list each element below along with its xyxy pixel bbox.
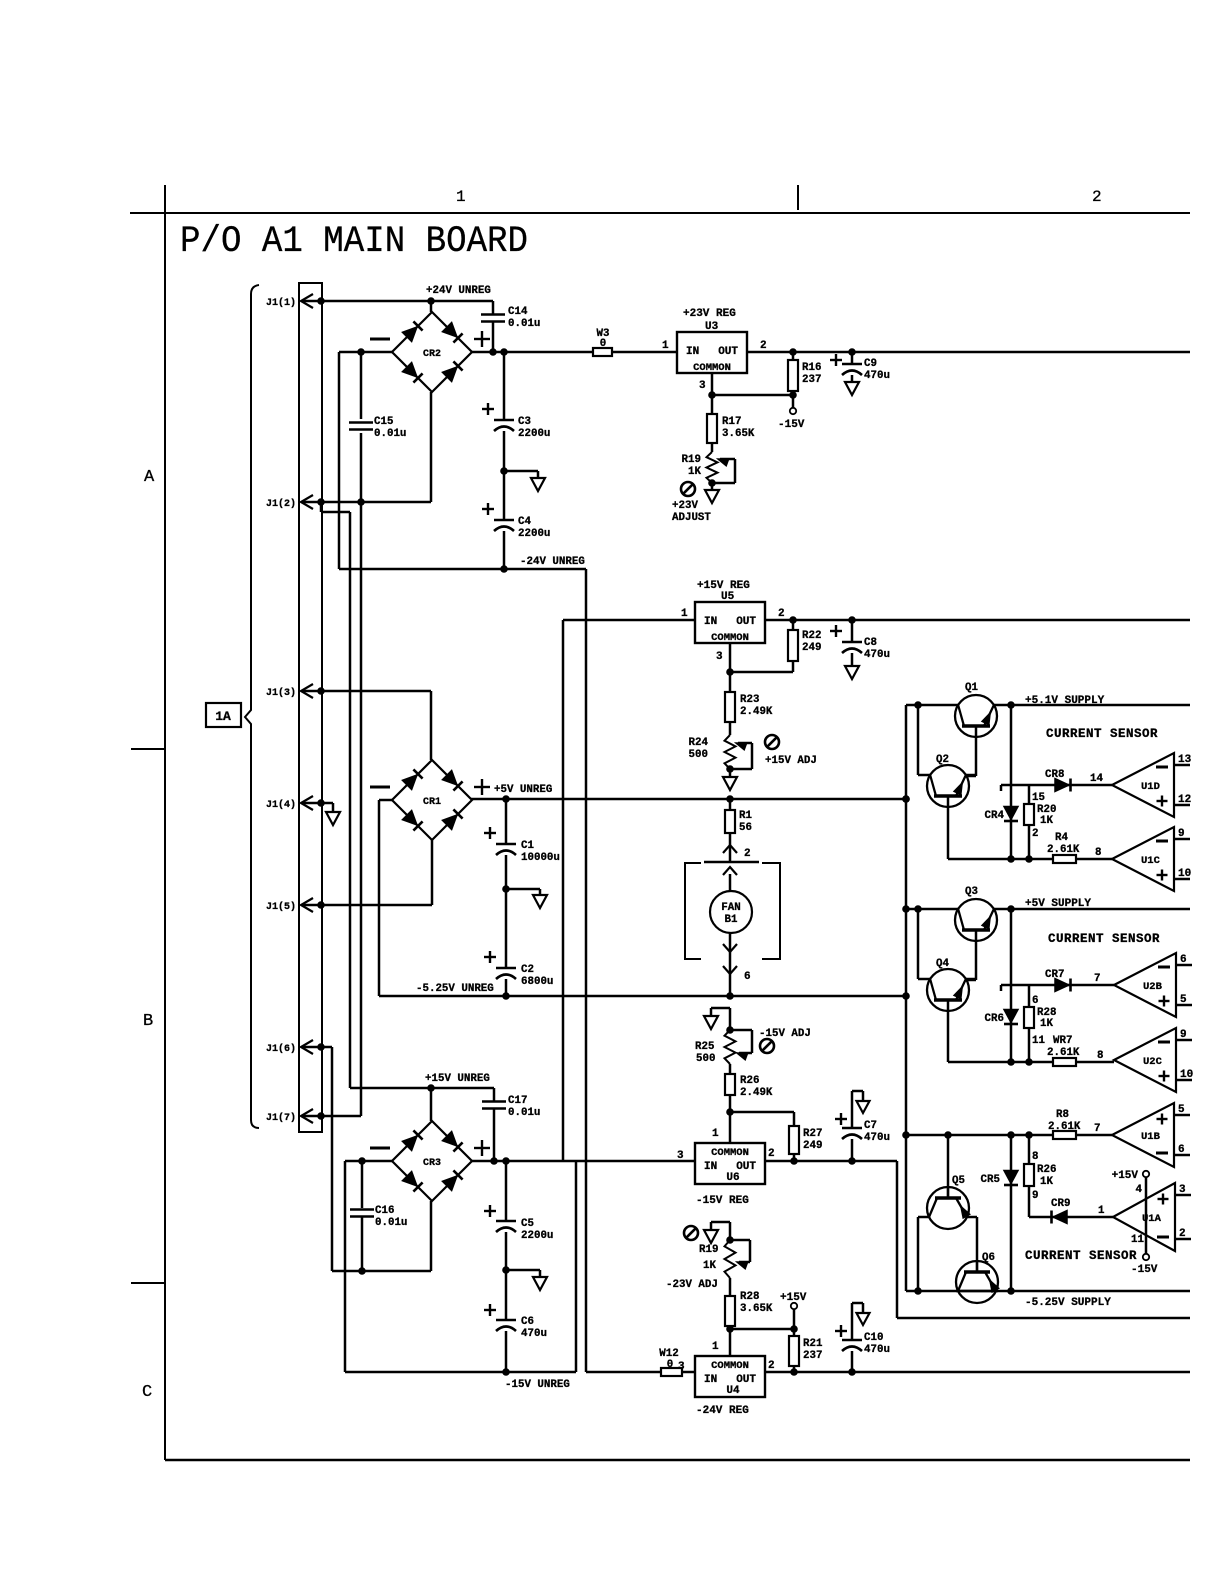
resistor R17 3.65K xyxy=(707,414,717,443)
svg-text:+15V ADJ: +15V ADJ xyxy=(765,755,817,767)
svg-text:C17: C17 xyxy=(508,1095,527,1107)
wire U6 out -15V xyxy=(765,1160,897,1163)
svg-text:2: 2 xyxy=(1092,188,1102,206)
svg-text:CR2: CR2 xyxy=(423,349,441,360)
svg-text:R19: R19 xyxy=(699,1244,718,1256)
capacitor C6 xyxy=(505,1270,508,1319)
svg-text:0: 0 xyxy=(667,1359,673,1371)
svg-text:2.61K: 2.61K xyxy=(1047,1047,1080,1059)
svg-text:C4: C4 xyxy=(518,516,531,528)
svg-text:9: 9 xyxy=(1178,828,1185,840)
wire J1(2) jog down to +15V unreg xyxy=(320,502,323,512)
wire CR3 bottom row to J1(6) xyxy=(332,1270,431,1273)
svg-text:C7: C7 xyxy=(864,1120,877,1132)
wire -5.25V SUPPLY rail xyxy=(906,1290,1190,1293)
svg-text:COMMON: COMMON xyxy=(711,632,749,644)
svg-text:R19: R19 xyxy=(682,454,701,466)
wire J1(3) to CR1 top xyxy=(301,690,431,693)
diode CR5 xyxy=(1010,1135,1013,1291)
svg-text:R17: R17 xyxy=(722,416,741,428)
svg-text:2: 2 xyxy=(768,1148,775,1160)
regulator U6 xyxy=(695,1143,765,1184)
svg-text:R26: R26 xyxy=(740,1075,759,1087)
svg-text:R24: R24 xyxy=(689,737,709,749)
inverted ground at C10 xyxy=(852,1302,863,1305)
diode CR7 xyxy=(1000,985,1003,991)
svg-text:0.01u: 0.01u xyxy=(508,318,540,330)
svg-text:3.65K: 3.65K xyxy=(722,428,755,440)
diode CR4 xyxy=(1010,705,1013,859)
svg-text:C10: C10 xyxy=(864,1332,883,1344)
svg-text:1K: 1K xyxy=(703,1260,716,1272)
resistor R26 2.49K xyxy=(729,1064,732,1074)
svg-text:COMMON: COMMON xyxy=(711,1147,749,1159)
svg-text:+15V: +15V xyxy=(780,1292,807,1304)
ground below R24 xyxy=(729,769,732,777)
capacitor C3 xyxy=(503,352,506,419)
svg-text:1: 1 xyxy=(1098,1205,1105,1217)
svg-text:6: 6 xyxy=(1032,995,1038,1007)
ground at C8 xyxy=(845,666,859,679)
ground at C9 xyxy=(845,382,859,395)
svg-text:8: 8 xyxy=(1097,1050,1103,1062)
svg-text:U5: U5 xyxy=(721,591,735,603)
resistor R4 2.61K xyxy=(1053,855,1076,863)
svg-text:8: 8 xyxy=(1032,1151,1038,1163)
wire CR2 minus to -24V riser xyxy=(339,351,392,354)
svg-text:CR1: CR1 xyxy=(423,797,441,808)
wire -24V riser to U4 xyxy=(585,569,588,1372)
op-amp U2B xyxy=(1114,953,1176,1017)
svg-text:470u: 470u xyxy=(864,1132,890,1144)
svg-text:Q1: Q1 xyxy=(965,682,978,694)
svg-text:R1: R1 xyxy=(739,810,752,822)
svg-text:2200u: 2200u xyxy=(521,1230,553,1242)
adjust -23V ADJ xyxy=(684,1226,698,1240)
capacitor C1 xyxy=(505,799,508,843)
node U5 common xyxy=(729,643,732,692)
svg-text:Q5: Q5 xyxy=(952,1175,965,1187)
svg-text:J1(4): J1(4) xyxy=(266,799,296,811)
wire -24V UNREG xyxy=(500,565,508,573)
svg-text:C3: C3 xyxy=(518,416,531,428)
wire J1(7) xyxy=(301,1115,361,1118)
svg-text:2: 2 xyxy=(768,1360,775,1372)
svg-text:CURRENT SENSOR: CURRENT SENSOR xyxy=(1046,727,1158,741)
svg-text:J1(3): J1(3) xyxy=(266,687,296,699)
svg-text:CR7: CR7 xyxy=(1045,969,1064,981)
op-amp U1B xyxy=(1112,1103,1174,1167)
svg-text:10000u: 10000u xyxy=(521,852,560,864)
diode CR9 xyxy=(1029,1216,1113,1219)
inverted ground at C7 xyxy=(852,1090,863,1093)
node to R21 xyxy=(730,1328,794,1331)
svg-text:-15V: -15V xyxy=(1131,1264,1158,1276)
svg-text:3: 3 xyxy=(699,380,706,392)
wire J1(4) ground xyxy=(301,802,333,805)
capacitor C7 xyxy=(851,1139,854,1161)
svg-text:11: 11 xyxy=(1032,1035,1045,1047)
svg-text:CR8: CR8 xyxy=(1045,769,1064,781)
svg-text:COMMON: COMMON xyxy=(693,362,731,374)
svg-text:5: 5 xyxy=(1180,994,1187,1006)
ground below R19 xyxy=(711,483,714,490)
terminal +15V xyxy=(791,1303,797,1309)
svg-text:B: B xyxy=(143,1012,153,1031)
svg-text:-15V UNREG: -15V UNREG xyxy=(505,1379,570,1391)
adjust +23V ADJUST xyxy=(681,482,695,496)
svg-text:J1(5): J1(5) xyxy=(266,901,296,913)
svg-text:OUT: OUT xyxy=(718,346,738,358)
fan connector brackets xyxy=(685,863,701,959)
svg-text:6: 6 xyxy=(1180,954,1187,966)
svg-text:2200u: 2200u xyxy=(518,428,550,440)
svg-text:2: 2 xyxy=(1179,1228,1186,1240)
capacitor C17 xyxy=(493,1088,496,1101)
capacitor C8 xyxy=(851,620,854,641)
svg-text:-24V REG: -24V REG xyxy=(696,1405,749,1417)
svg-text:R8: R8 xyxy=(1056,1109,1069,1121)
op-amp U2C xyxy=(1114,1028,1176,1092)
svg-text:+5V UNREG: +5V UNREG xyxy=(494,784,552,796)
svg-text:0.01u: 0.01u xyxy=(375,1217,407,1229)
capacitor C9 xyxy=(851,352,854,363)
svg-text:CR4: CR4 xyxy=(985,810,1005,822)
svg-text:500: 500 xyxy=(696,1053,715,1065)
svg-text:470u: 470u xyxy=(864,649,890,661)
wire J1(1) to +24V node xyxy=(301,300,493,303)
svg-text:500: 500 xyxy=(689,749,708,761)
potentiometer R24 500 xyxy=(725,735,736,769)
capacitor C10 xyxy=(851,1351,854,1372)
ground at C1/C2 node xyxy=(502,885,510,893)
resistor R1 56 xyxy=(729,799,732,810)
wire main riser xyxy=(905,705,908,1291)
svg-text:-5.25V SUPPLY: -5.25V SUPPLY xyxy=(1025,1297,1111,1309)
svg-text:0.01u: 0.01u xyxy=(508,1107,540,1119)
svg-text:U1C: U1C xyxy=(1141,855,1161,867)
wire +5V UNREG rail xyxy=(471,798,906,801)
svg-text:R16: R16 xyxy=(802,362,821,374)
svg-text:U4: U4 xyxy=(726,1385,740,1397)
svg-text:U3: U3 xyxy=(705,321,719,333)
svg-text:-24V UNREG: -24V UNREG xyxy=(520,556,585,568)
svg-text:ADJUST: ADJUST xyxy=(672,512,711,524)
bridge rectifier CR3 xyxy=(392,1121,472,1201)
svg-text:IN: IN xyxy=(704,1161,717,1173)
resistor R16 237 xyxy=(792,352,795,360)
svg-text:IN: IN xyxy=(686,346,699,358)
svg-text:+5.1V SUPPLY: +5.1V SUPPLY xyxy=(1025,695,1105,707)
svg-text:10: 10 xyxy=(1180,1069,1193,1081)
wire CR3 plus row xyxy=(472,1160,576,1163)
svg-text:-5.25V UNREG: -5.25V UNREG xyxy=(416,983,494,995)
svg-text:C5: C5 xyxy=(521,1218,534,1230)
svg-text:FAN: FAN xyxy=(721,902,740,914)
svg-text:13: 13 xyxy=(1178,754,1192,766)
svg-text:6800u: 6800u xyxy=(521,976,553,988)
svg-text:56: 56 xyxy=(739,822,752,834)
svg-text:+23V REG: +23V REG xyxy=(683,308,736,320)
resistor R22 249 xyxy=(792,620,795,630)
svg-text:7: 7 xyxy=(1094,1123,1100,1135)
svg-text:470u: 470u xyxy=(521,1328,547,1340)
svg-text:1: 1 xyxy=(681,608,688,620)
svg-text:CR6: CR6 xyxy=(985,1013,1004,1025)
svg-text:237: 237 xyxy=(803,1350,822,1362)
svg-text:C: C xyxy=(142,1383,152,1402)
svg-text:2: 2 xyxy=(1032,828,1038,840)
svg-text:C6: C6 xyxy=(521,1316,534,1328)
svg-text:2200u: 2200u xyxy=(518,528,550,540)
svg-text:1: 1 xyxy=(662,340,669,352)
svg-text:3: 3 xyxy=(716,651,723,663)
fan B1 xyxy=(729,874,732,891)
node to R27 xyxy=(730,1111,794,1114)
svg-text:U6: U6 xyxy=(726,1172,739,1184)
diode CR8 xyxy=(1000,785,1003,791)
wire J1(2) row xyxy=(301,501,431,504)
svg-text:IN: IN xyxy=(704,1374,717,1386)
wire sensor row 2 xyxy=(948,1061,1053,1064)
svg-text:+24V UNREG: +24V UNREG xyxy=(426,285,491,297)
svg-text:9: 9 xyxy=(1032,1190,1038,1202)
svg-text:U1D: U1D xyxy=(1141,781,1160,793)
svg-text:4: 4 xyxy=(1136,1184,1143,1196)
svg-text:1: 1 xyxy=(712,1128,719,1140)
svg-text:P/O A1 MAIN BOARD: P/O A1 MAIN BOARD xyxy=(180,221,528,263)
op-amp U1C xyxy=(1112,827,1174,891)
regulator U4 xyxy=(695,1356,765,1397)
svg-text:C2: C2 xyxy=(521,964,534,976)
wire -5.25V UNREG xyxy=(379,995,906,998)
capacitor C15 xyxy=(360,352,363,419)
wire +5V SUPPLY rail xyxy=(906,908,1190,911)
svg-text:R26: R26 xyxy=(1037,1164,1056,1176)
svg-text:5: 5 xyxy=(1178,1104,1185,1116)
potentiometer R19 1K xyxy=(726,1236,734,1244)
svg-text:2.49K: 2.49K xyxy=(740,706,773,718)
potentiometer R25 500 xyxy=(726,1026,734,1034)
svg-text:6: 6 xyxy=(744,971,751,983)
wire U4 out -24V rail xyxy=(765,1371,1190,1374)
svg-text:6: 6 xyxy=(1178,1144,1185,1156)
wire sensor row 3 xyxy=(906,1134,1053,1137)
svg-text:CURRENT SENSOR: CURRENT SENSOR xyxy=(1048,932,1160,946)
svg-text:C15: C15 xyxy=(374,416,393,428)
svg-text:CURRENT SENSOR: CURRENT SENSOR xyxy=(1025,1249,1137,1263)
resistor R8 2.61K xyxy=(1053,1131,1076,1139)
svg-text:C8: C8 xyxy=(864,637,877,649)
svg-text:0.01u: 0.01u xyxy=(374,428,406,440)
svg-text:7: 7 xyxy=(1094,973,1100,985)
svg-text:249: 249 xyxy=(802,642,821,654)
svg-text:2: 2 xyxy=(744,848,751,860)
potentiometer R19 1K xyxy=(707,452,718,483)
adjust +15V ADJ xyxy=(765,735,779,749)
wire sensor row 1 xyxy=(948,858,1053,861)
svg-text:+5V SUPPLY: +5V SUPPLY xyxy=(1025,898,1091,910)
svg-text:2.49K: 2.49K xyxy=(740,1087,773,1099)
svg-text:8: 8 xyxy=(1095,847,1101,859)
svg-text:1K: 1K xyxy=(1040,1176,1053,1188)
svg-text:B1: B1 xyxy=(725,914,738,926)
resistor R23 2.49K xyxy=(725,692,735,722)
wire CR3 minus xyxy=(345,1160,392,1163)
fan connector top bar xyxy=(704,861,759,864)
jumper W3 xyxy=(593,348,612,356)
svg-text:10: 10 xyxy=(1178,868,1191,880)
svg-text:11: 11 xyxy=(1131,1234,1144,1246)
regulator U5 xyxy=(695,602,765,643)
op-amp U1D xyxy=(1112,753,1174,817)
svg-text:R4: R4 xyxy=(1055,832,1068,844)
wire U6 in xyxy=(576,1160,695,1163)
capacitor C16 xyxy=(361,1161,364,1208)
svg-text:+23V: +23V xyxy=(672,500,698,512)
svg-text:J1(2): J1(2) xyxy=(266,498,296,510)
svg-text:-15V REG: -15V REG xyxy=(696,1195,749,1207)
svg-text:CR5: CR5 xyxy=(981,1174,1000,1186)
svg-text:470u: 470u xyxy=(864,370,890,382)
resistor R28 3.65K xyxy=(729,1278,732,1296)
wire J1(5) to CR1 bottom xyxy=(301,904,432,907)
op-amp U1A xyxy=(1113,1183,1175,1251)
svg-text:+15V: +15V xyxy=(1112,1170,1139,1182)
svg-text:OUT: OUT xyxy=(736,616,756,628)
diode CR6 xyxy=(1010,909,1013,1062)
svg-text:CR3: CR3 xyxy=(423,1158,441,1169)
jumper W12 xyxy=(661,1368,682,1376)
svg-text:-23V ADJ: -23V ADJ xyxy=(666,1279,718,1291)
svg-text:-15V: -15V xyxy=(778,419,805,431)
svg-text:U2B: U2B xyxy=(1143,981,1163,993)
svg-text:CR9: CR9 xyxy=(1051,1198,1070,1210)
svg-text:9: 9 xyxy=(1180,1029,1187,1041)
svg-text:C16: C16 xyxy=(375,1205,394,1217)
svg-text:2.61K: 2.61K xyxy=(1048,1121,1081,1133)
svg-text:C9: C9 xyxy=(864,358,877,370)
svg-text:1K: 1K xyxy=(1040,1018,1053,1030)
node U3 common xyxy=(711,373,714,414)
svg-text:249: 249 xyxy=(803,1140,822,1152)
wire +24V output node xyxy=(472,351,593,354)
svg-text:C14: C14 xyxy=(508,306,528,318)
svg-text:Q3: Q3 xyxy=(965,886,978,898)
svg-text:IN: IN xyxy=(704,616,717,628)
resistor WR7 2.61K xyxy=(1053,1058,1076,1066)
resistor R21 237 xyxy=(793,1329,796,1336)
svg-text:J1(7): J1(7) xyxy=(266,1112,296,1124)
svg-text:470u: 470u xyxy=(864,1344,890,1356)
border frame xyxy=(130,212,1190,214)
capacitor C4 xyxy=(503,471,506,519)
wire U3 out +23V rail xyxy=(747,351,1190,354)
ground at C5/C6 node xyxy=(502,1266,510,1274)
svg-text:1K: 1K xyxy=(688,466,701,478)
wire U5 out +15V rail xyxy=(765,619,1190,622)
U1A supply pins xyxy=(1143,1171,1149,1177)
svg-text:3.65K: 3.65K xyxy=(740,1303,773,1315)
wire -15V UNREG xyxy=(345,1371,576,1374)
ground above R19 xyxy=(729,1222,732,1240)
svg-text:WR7: WR7 xyxy=(1053,1035,1072,1047)
svg-text:U2C: U2C xyxy=(1143,1056,1163,1068)
svg-text:2: 2 xyxy=(778,608,785,620)
capacitor C14 xyxy=(492,301,495,314)
svg-text:1K: 1K xyxy=(1040,815,1053,827)
wire common bus x=361 down to J1(7) xyxy=(360,502,363,1116)
svg-text:R22: R22 xyxy=(802,630,821,642)
svg-text:1: 1 xyxy=(712,1341,719,1353)
svg-text:1: 1 xyxy=(456,188,466,206)
wire +15V UNREG row xyxy=(350,1087,494,1090)
svg-text:R25: R25 xyxy=(695,1041,714,1053)
svg-text:U1B: U1B xyxy=(1141,1131,1161,1143)
terminal -15V xyxy=(792,395,795,408)
svg-text:14: 14 xyxy=(1090,773,1103,785)
svg-text:1A: 1A xyxy=(215,709,231,724)
svg-text:3: 3 xyxy=(1179,1184,1186,1196)
svg-text:R28: R28 xyxy=(740,1291,759,1303)
svg-text:12: 12 xyxy=(1178,794,1191,806)
wire U5 in from +15V unreg riser xyxy=(563,619,695,622)
connector J1 brace xyxy=(245,285,259,1128)
net label 1A xyxy=(206,703,241,727)
svg-text:+15V UNREG: +15V UNREG xyxy=(425,1073,490,1085)
bridge rectifier CR2 xyxy=(392,312,472,392)
wire +5.1V SUPPLY rail xyxy=(906,704,1190,707)
ground above R25 xyxy=(729,1008,732,1030)
ground at C3/C4 node xyxy=(500,467,508,475)
svg-text:15: 15 xyxy=(1032,792,1045,804)
connector J1 body xyxy=(299,283,322,1132)
bridge rectifier CR1 xyxy=(392,760,472,840)
svg-text:COMMON: COMMON xyxy=(711,1360,749,1372)
svg-text:C1: C1 xyxy=(521,840,534,852)
svg-text:J1(6): J1(6) xyxy=(266,1043,296,1055)
svg-text:A: A xyxy=(144,468,155,487)
svg-text:0: 0 xyxy=(600,338,606,350)
wire J1(6) xyxy=(301,1046,332,1049)
svg-text:237: 237 xyxy=(802,374,821,386)
svg-text:R23: R23 xyxy=(740,694,759,706)
resistor R27 249 xyxy=(789,1126,799,1154)
svg-text:2: 2 xyxy=(760,340,767,352)
svg-text:R21: R21 xyxy=(803,1338,823,1350)
capacitor C5 xyxy=(505,1161,508,1220)
wire -15V distribution xyxy=(896,1161,899,1318)
capacitor C2 xyxy=(505,889,508,967)
svg-text:J1(1): J1(1) xyxy=(266,297,296,309)
svg-text:2.61K: 2.61K xyxy=(1047,844,1080,856)
regulator U3 xyxy=(677,332,747,373)
svg-text:R27: R27 xyxy=(803,1128,822,1140)
wire CR1 minus to -5.25V unreg xyxy=(379,799,392,802)
